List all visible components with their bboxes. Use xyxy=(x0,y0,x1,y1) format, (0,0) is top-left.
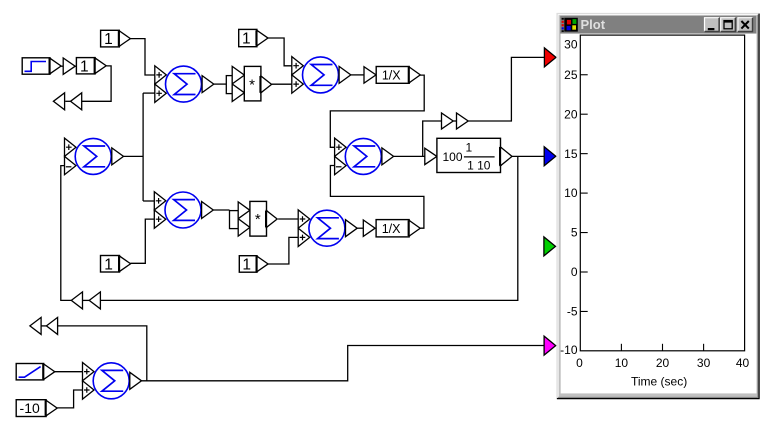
const block -10 xyxy=(16,400,57,417)
magenta output arrow to plot xyxy=(544,336,556,355)
wire sum S2 out to buffer xyxy=(351,74,364,76)
plot window title text xyxy=(581,17,606,32)
summing junction S2 (top-right, plus/plus) xyxy=(292,57,351,94)
plot x-axis title xyxy=(631,375,687,389)
svg-text:Time (sec): Time (sec) xyxy=(631,375,687,389)
summing junction S1 (top-left, plus/plus) xyxy=(155,66,214,103)
connector arrow B1 (right) xyxy=(89,292,100,309)
summing junction S0 (left, plus/minus) xyxy=(65,138,124,175)
wire sum S5 out to buffer xyxy=(357,227,363,229)
maximize button xyxy=(721,18,736,32)
wire feedback from output node down and left xyxy=(100,156,518,300)
svg-text:1/X: 1/X xyxy=(382,68,401,82)
reciprocal block 1/X (lower) xyxy=(376,220,420,237)
connector arrow B2 (left) xyxy=(71,292,82,309)
svg-text:15: 15 xyxy=(564,147,578,161)
svg-text:20: 20 xyxy=(656,356,670,370)
wire multiplier M2 out to sum S5 upper input xyxy=(278,218,298,220)
svg-text:0: 0 xyxy=(571,265,578,279)
reciprocal block 1/X (upper) xyxy=(376,67,420,84)
svg-text:10: 10 xyxy=(564,186,578,200)
wire sum S6 out branch to connector pair C xyxy=(58,326,147,381)
buffer triangle after sum S5 xyxy=(363,220,375,236)
plot y-axis labels xyxy=(560,38,578,358)
wire between connector pair C triangles xyxy=(41,325,46,327)
plot axis tick marks xyxy=(580,75,703,351)
plot window frame xyxy=(557,13,760,399)
wire const 1 (lower-left) to sum S4 lower input xyxy=(131,219,155,263)
svg-text:5: 5 xyxy=(571,226,578,240)
const block 1 (lower-left) xyxy=(101,256,131,274)
plot window title bar xyxy=(560,16,756,34)
close button xyxy=(738,18,753,32)
svg-text:1: 1 xyxy=(104,256,113,273)
wire const 1 (top-left) to sum S1 plus input xyxy=(130,39,154,75)
svg-text:40: 40 xyxy=(736,356,750,370)
svg-text:*: * xyxy=(255,211,261,228)
wire branch to sum S1 lower input xyxy=(143,92,155,94)
red output arrow to plot xyxy=(544,48,556,67)
plot window icon xyxy=(562,18,578,32)
wire sum S4 out to multiplier M2 xyxy=(213,209,229,211)
wire sum S6 out to magenta output arrow xyxy=(142,346,545,381)
buffer triangle pair to red arrow - second xyxy=(457,113,469,129)
wire sum S3 out to transfer function input xyxy=(394,155,425,157)
minimize button xyxy=(705,18,720,32)
wire ramp to sum S6 upper input xyxy=(54,371,82,373)
svg-text:0: 0 xyxy=(576,356,583,370)
wire 1/X lower out to sum S3 minus input xyxy=(330,166,424,229)
wire branch to sum S4 upper input xyxy=(143,200,154,202)
svg-text:*: * xyxy=(249,77,255,94)
summing junction S4 (lower-left, plus/plus) xyxy=(154,192,213,229)
svg-text:100: 100 xyxy=(443,150,463,164)
wire connector pair B to sum S0 minus input xyxy=(61,166,72,301)
wire between connector pair B triangles xyxy=(82,299,89,301)
wire step to buffer xyxy=(61,65,63,67)
wire between buffer pair xyxy=(453,120,456,122)
connector arrow A1 (right) xyxy=(71,93,82,110)
svg-text:1/X: 1/X xyxy=(382,222,401,236)
wire const -10 to sum S6 lower input xyxy=(57,390,82,408)
summing junction S3 (middle, plus/minus) xyxy=(335,138,394,175)
wire branch vertical node to S1 and S4 xyxy=(142,93,144,201)
wire const 1 (lower-mid) to sum S5 lower input xyxy=(268,237,298,264)
wire gain 1 out to connector pair A xyxy=(82,66,111,101)
const block 1 (upper-mid) xyxy=(239,29,268,47)
transfer function block 100/(s+10) xyxy=(425,138,512,172)
blue output arrow to plot xyxy=(544,147,556,166)
plot x-axis labels xyxy=(576,356,749,370)
multiplier M1 (squarer, upper) xyxy=(226,66,271,101)
svg-text:1: 1 xyxy=(80,58,89,75)
wire const 1 (upper-mid) to sum S2 upper input xyxy=(268,38,292,66)
wire buffer to gain 1 xyxy=(75,65,76,67)
svg-text:20: 20 xyxy=(564,107,578,121)
svg-text:Plot: Plot xyxy=(581,17,606,32)
svg-text:30: 30 xyxy=(697,356,711,370)
connector arrow C2 (left) xyxy=(30,317,41,334)
summing junction S6 (bottom, plus/plus) xyxy=(83,363,142,400)
buffer triangle after sum S2 xyxy=(364,67,376,83)
svg-text:1: 1 xyxy=(104,31,113,48)
green output arrow to plot xyxy=(544,237,556,256)
ramp source block xyxy=(16,364,55,380)
wire buffer pair to red output arrow xyxy=(468,57,544,121)
const block 1 (lower-mid) xyxy=(239,256,268,274)
wire 1/X upper out to sum S3 upper input xyxy=(330,75,424,147)
buffer triangle after step xyxy=(63,58,75,74)
connector arrow A2 (left) xyxy=(53,93,64,110)
svg-text:1 10: 1 10 xyxy=(467,159,491,173)
step source block xyxy=(22,58,61,74)
plot window client area xyxy=(561,34,757,394)
wire multiplier M1 out to sum S2 lower input xyxy=(272,83,292,85)
multiplier M2 (squarer, lower) xyxy=(230,201,278,236)
svg-text:1: 1 xyxy=(465,141,472,155)
svg-text:30: 30 xyxy=(564,38,578,52)
wire sum S0 out to branch node xyxy=(124,155,144,157)
wire between connector pair A triangles xyxy=(65,100,70,102)
summing junction S5 (lower-right, plus/plus) xyxy=(298,210,357,247)
buffer triangle pair to red arrow - first xyxy=(442,113,454,129)
plot axes frame xyxy=(580,35,744,351)
wire sum S1 out to multiplier M1 xyxy=(214,83,226,85)
svg-text:-5: -5 xyxy=(567,305,578,319)
svg-text:10: 10 xyxy=(615,356,629,370)
wire transfer function out to blue output arrow xyxy=(512,155,544,157)
gain block 1 xyxy=(76,58,106,76)
const block 1 (top-left) xyxy=(101,30,131,48)
wire junction up to buffer pair xyxy=(423,121,442,156)
svg-text:-10: -10 xyxy=(20,400,40,416)
connector arrow C1 (right) xyxy=(46,317,57,334)
svg-text:1: 1 xyxy=(242,257,251,274)
svg-text:25: 25 xyxy=(564,68,578,82)
svg-text:1: 1 xyxy=(242,31,251,48)
